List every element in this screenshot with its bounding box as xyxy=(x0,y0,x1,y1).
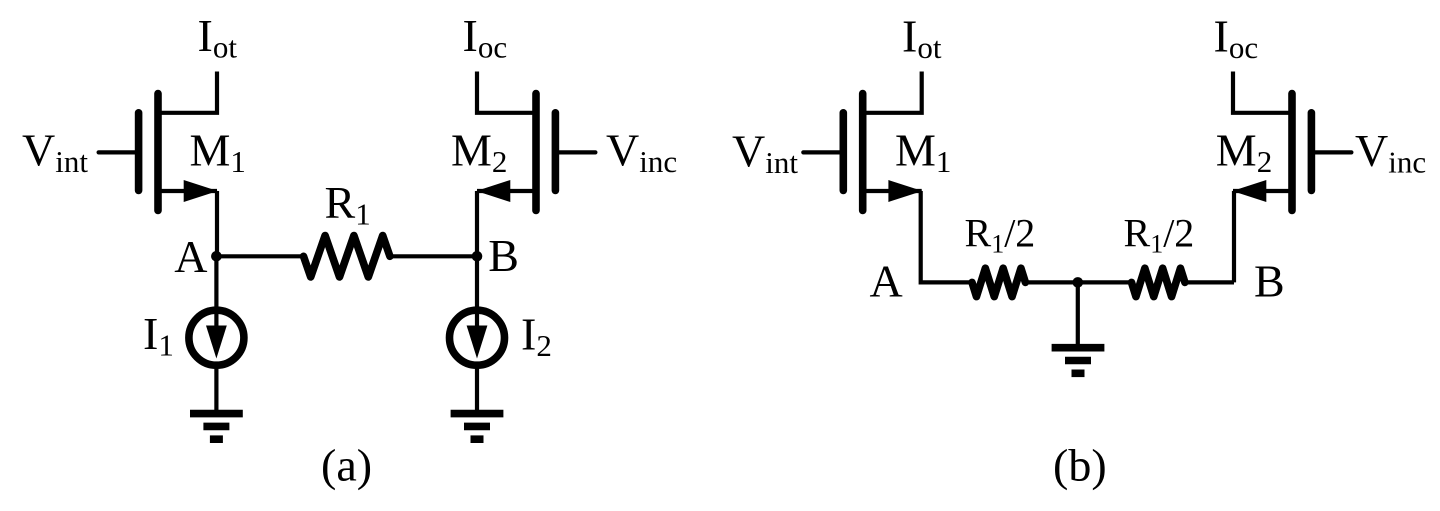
svg-text:I1: I1 xyxy=(143,308,174,363)
wire node A to current source I1 (circuit a) xyxy=(214,256,218,310)
transistor M2 (circuit a) xyxy=(476,72,595,211)
svg-text:(a): (a) xyxy=(321,439,372,490)
current source I2 (circuit a) xyxy=(450,310,505,365)
current source I1 (circuit a) xyxy=(189,310,244,365)
wire node A to resistor R1 (circuit a) xyxy=(216,254,303,258)
wire M1 source to node A (circuit b) xyxy=(921,191,972,282)
svg-text:R1/2: R1/2 xyxy=(965,211,1036,259)
ground below I1 (circuit a) xyxy=(190,414,243,440)
svg-text:Vinc: Vinc xyxy=(606,125,677,180)
ground below I2 (circuit a) xyxy=(451,414,504,440)
svg-text:Vint: Vint xyxy=(22,125,88,180)
node B (circuit a) xyxy=(472,251,483,262)
resistor R1 (circuit a) xyxy=(304,236,390,278)
wire M2 source to node B (circuit b) xyxy=(1232,191,1236,282)
transistor M1 (circuit b) xyxy=(803,72,922,211)
node A (circuit a) xyxy=(211,251,222,262)
svg-text:(b): (b) xyxy=(1053,439,1107,490)
ground middle (circuit b) xyxy=(1052,348,1105,374)
svg-text:R1: R1 xyxy=(325,177,371,232)
svg-text:B: B xyxy=(1254,256,1285,307)
wire M1 source to node A (circuit a) xyxy=(215,191,219,256)
svg-text:A: A xyxy=(174,231,207,282)
transistor M2 (circuit b) xyxy=(1232,72,1351,211)
svg-text:Ioc: Ioc xyxy=(463,10,508,65)
svg-text:M2: M2 xyxy=(451,125,507,180)
wire current source I2 to ground (circuit a) xyxy=(475,365,479,410)
svg-text:R1/2: R1/2 xyxy=(1124,211,1195,259)
svg-text:I2: I2 xyxy=(521,309,552,364)
resistor R1/2 left (circuit b) xyxy=(972,268,1025,296)
svg-text:Iot: Iot xyxy=(902,11,942,66)
middle node (circuit b) xyxy=(1073,277,1084,288)
transistor M1 (circuit a) xyxy=(99,72,218,211)
svg-text:M2: M2 xyxy=(1216,125,1272,180)
wire M2 source to node B (circuit a) xyxy=(475,191,479,256)
wire resistor right to node B (circuit b) xyxy=(1185,280,1234,284)
svg-text:Iot: Iot xyxy=(198,10,238,65)
wire resistor left to middle node (circuit b) xyxy=(1025,280,1131,284)
svg-text:B: B xyxy=(488,230,519,281)
resistor R1/2 right (circuit b) xyxy=(1132,268,1185,296)
svg-text:Vinc: Vinc xyxy=(1355,125,1426,180)
svg-text:Ioc: Ioc xyxy=(1214,11,1259,66)
wire middle node to ground (circuit b) xyxy=(1076,282,1080,344)
wire node B to current source I2 (circuit a) xyxy=(475,256,479,310)
wire resistor R1 to node B (circuit a) xyxy=(390,254,477,258)
wire current source I1 to ground (circuit a) xyxy=(214,365,218,410)
svg-text:M1: M1 xyxy=(895,125,951,180)
svg-text:M1: M1 xyxy=(190,125,246,180)
svg-text:Vint: Vint xyxy=(732,126,798,181)
svg-text:A: A xyxy=(870,256,903,307)
